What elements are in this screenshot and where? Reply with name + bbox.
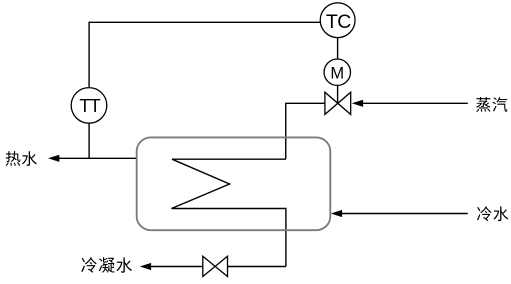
wire condensate right segment <box>228 266 286 268</box>
svg-text:TC: TC <box>326 11 351 33</box>
valve V2 condensate <box>203 256 228 276</box>
heat exchanger vessel <box>137 137 331 230</box>
svg-text:M: M <box>330 64 344 82</box>
wire hot water outlet <box>59 157 137 159</box>
instrument TC temperature controller <box>320 3 355 38</box>
wire TT stem down to hot water line <box>88 123 90 158</box>
arrow steam into valve <box>352 100 363 107</box>
wire steam inlet from label to valve arrow <box>362 102 468 104</box>
label condensate 冷凝水 <box>81 257 132 272</box>
coil zigzag inside exchanger <box>172 159 286 266</box>
label cold water 冷水 <box>477 206 508 221</box>
arrow hot water outlet <box>48 155 59 162</box>
wire TC to M stem <box>337 38 339 60</box>
instrument M valve actuator motor <box>324 59 350 85</box>
wire M to valve stem <box>337 85 339 103</box>
label hot water 热水 <box>6 151 37 166</box>
wire condensate left segment <box>151 266 203 268</box>
instrument TT temperature transmitter <box>71 88 107 124</box>
arrow cold water into exchanger <box>331 210 342 217</box>
control valve V1 steam <box>325 92 351 114</box>
wire signal line TT up and across to TC <box>89 22 320 87</box>
wire valve outlet to downpipe into exchanger <box>286 103 325 159</box>
svg-text:TT: TT <box>79 96 100 116</box>
label steam 蒸汽 <box>476 97 507 112</box>
arrow condensate outlet <box>140 263 151 270</box>
wire cold water inlet <box>342 213 468 215</box>
